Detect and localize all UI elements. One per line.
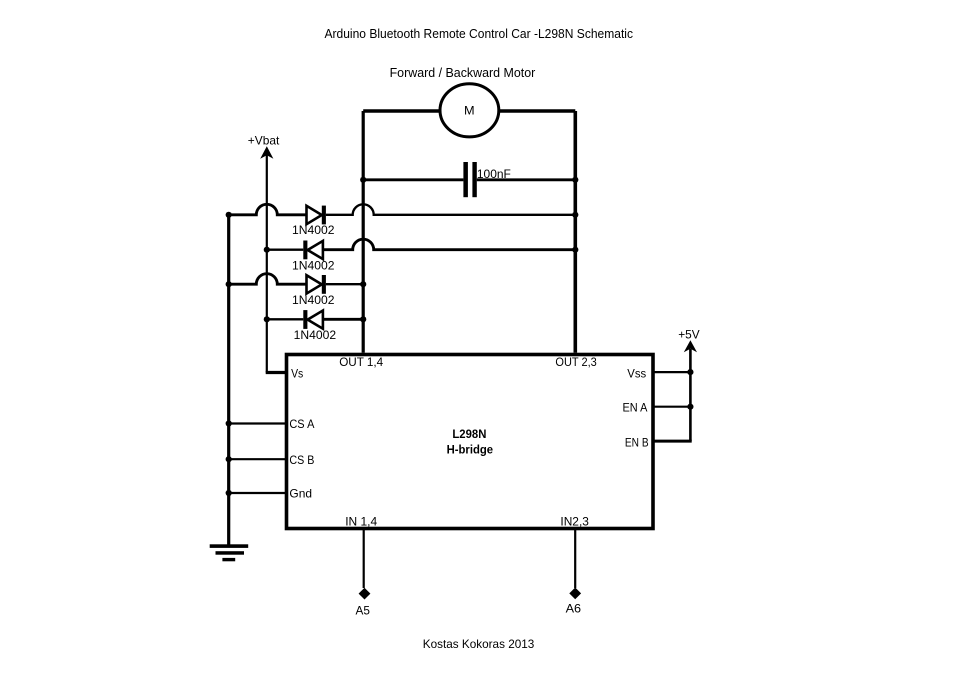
diode D2 — [303, 241, 323, 260]
wire diode row 4 left — [267, 318, 304, 320]
junction dot cap right — [572, 177, 578, 183]
svg-text:IN 1,4: IN 1,4 — [345, 514, 377, 528]
wire diode row 2 left — [267, 249, 304, 251]
svg-text:Vs: Vs — [291, 367, 303, 381]
wire diode row 1 right — [326, 204, 575, 215]
svg-text:+Vbat: +Vbat — [248, 134, 280, 148]
svg-text:1N4002: 1N4002 — [292, 293, 335, 307]
svg-text:OUT 2,3: OUT 2,3 — [555, 355, 597, 369]
wire diode row 3 — [229, 274, 307, 285]
svg-text:Arduino Bluetooth Remote Contr: Arduino Bluetooth Remote Control Car -L2… — [325, 27, 634, 41]
wire vertical OUT 1,4 net — [362, 111, 365, 353]
junction dot row3 left — [226, 281, 232, 287]
diode D1 — [307, 206, 326, 225]
wire diode row 4 right — [323, 318, 363, 321]
wire motor row left — [363, 109, 441, 112]
svg-text:1N4002: 1N4002 — [292, 259, 335, 273]
svg-text:A5: A5 — [356, 603, 371, 617]
junction dot CS B — [226, 456, 232, 462]
wire diode row 2 right — [323, 239, 575, 250]
wire diode row 3 right — [326, 283, 363, 285]
junction dot row4 left — [264, 316, 270, 322]
junction dot Vss — [687, 369, 693, 375]
svg-text:Vss: Vss — [627, 367, 646, 381]
junction dot row3 right — [360, 281, 366, 287]
svg-text:Kostas Kokoras 2013: Kostas Kokoras 2013 — [423, 637, 535, 651]
wire IN 1,4 pin — [363, 530, 365, 588]
junction dot row1 right — [572, 212, 578, 218]
wire +5V vertical net — [689, 349, 692, 441]
wire Vss stub — [653, 371, 690, 373]
op IC U1 L298N box — [287, 355, 654, 529]
junction dot row2 right — [572, 247, 578, 253]
node A5 diamond — [359, 588, 371, 600]
svg-text:1N4002: 1N4002 — [294, 328, 337, 342]
diode D3 — [307, 275, 326, 294]
ground — [210, 544, 249, 561]
capacitor C1 — [463, 162, 476, 197]
wire CS A stub — [229, 422, 287, 424]
wire EN B stub — [653, 440, 692, 443]
node A6 diamond — [569, 588, 581, 600]
wire far-left vertical net — [227, 215, 230, 545]
wire capacitor row left — [363, 178, 463, 181]
motor M1 — [440, 84, 499, 137]
svg-text:1N4002: 1N4002 — [292, 223, 335, 237]
svg-text:L298N: L298N — [452, 427, 486, 441]
wire diode row 1 — [229, 204, 307, 215]
svg-text:CS B: CS B — [289, 453, 314, 467]
svg-text:Forward / Backward Motor: Forward / Backward Motor — [390, 66, 536, 80]
junction dot cap left — [360, 177, 366, 183]
svg-text:+5V: +5V — [678, 328, 699, 342]
svg-text:100nF: 100nF — [477, 167, 511, 181]
diode D4 — [303, 310, 323, 329]
wire vertical OUT 2,3 net — [573, 111, 577, 353]
svg-text:CS A: CS A — [289, 417, 314, 431]
wire Gnd stub — [229, 492, 287, 494]
wire capacitor row right — [477, 178, 576, 181]
wire CS B stub — [229, 458, 287, 460]
svg-text:M: M — [464, 103, 475, 117]
svg-text:A6: A6 — [566, 601, 582, 615]
wire motor row right — [498, 109, 575, 112]
svg-text:Gnd: Gnd — [289, 486, 312, 500]
junction dot Gnd — [226, 490, 232, 496]
svg-text:EN B: EN B — [625, 436, 649, 450]
svg-text:H-bridge: H-bridge — [447, 443, 494, 457]
svg-text:IN2,3: IN2,3 — [560, 514, 589, 528]
svg-text:OUT 1,4: OUT 1,4 — [339, 355, 383, 369]
junction dot EN A — [687, 404, 693, 410]
power symbol +5V — [678, 328, 699, 353]
svg-text:EN A: EN A — [623, 401, 648, 415]
wire Vs stub — [266, 371, 287, 374]
junction dot row2 left — [264, 247, 270, 253]
power symbol +Vbat — [248, 134, 280, 373]
wire IN2,3 pin — [574, 530, 576, 588]
junction dot row1 left — [226, 212, 232, 218]
wire EN A stub — [653, 406, 690, 408]
junction dot row4 right — [360, 316, 366, 322]
junction dot CS A — [226, 420, 232, 426]
